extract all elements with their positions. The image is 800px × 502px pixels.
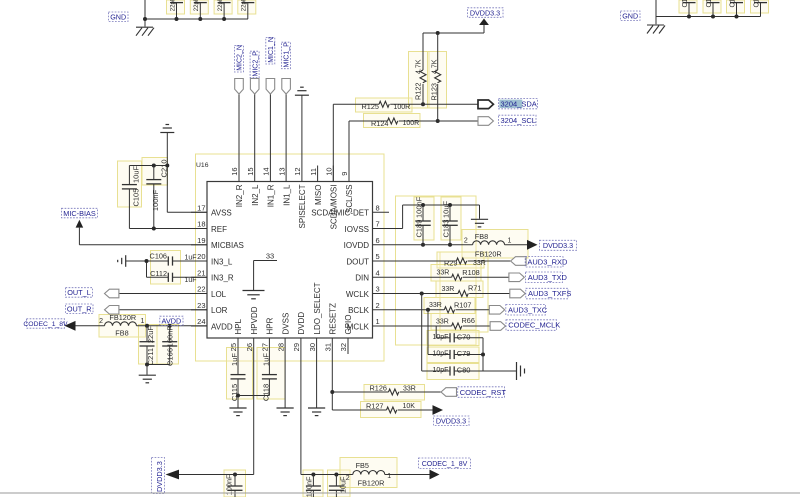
svg-text:CODEC_RST: CODEC_RST — [460, 388, 507, 397]
svg-text:MIC-BIAS: MIC-BIAS — [63, 209, 96, 218]
svg-text:2: 2 — [346, 475, 350, 482]
svg-text:SCDA/MIC-DET: SCDA/MIC-DET — [311, 209, 369, 218]
svg-text:C80: C80 — [457, 366, 471, 375]
svg-text:22: 22 — [197, 285, 205, 294]
svg-text:SCL/SS: SCL/SS — [345, 185, 354, 213]
svg-text:4: 4 — [376, 269, 380, 278]
svg-text:22pF: 22pF — [218, 0, 224, 11]
svg-text:18: 18 — [197, 220, 205, 229]
svg-text:33R: 33R — [403, 386, 416, 393]
svg-text:HPL: HPL — [234, 318, 243, 334]
svg-text:DVDD: DVDD — [297, 312, 306, 335]
svg-text:C188: C188 — [753, 0, 760, 8]
svg-text:C187: C187 — [729, 0, 736, 8]
svg-text:AUD3_TXFS: AUD3_TXFS — [528, 289, 571, 298]
svg-text:5: 5 — [376, 252, 380, 261]
svg-text:GPIO: GPIO — [344, 314, 353, 334]
svg-text:2: 2 — [99, 318, 103, 325]
svg-text:22pF: 22pF — [170, 0, 176, 11]
svg-text:DVDD3.3: DVDD3.3 — [470, 8, 500, 17]
svg-text:C70: C70 — [457, 332, 471, 341]
svg-text:17: 17 — [197, 204, 205, 213]
svg-text:15: 15 — [246, 167, 255, 175]
svg-text:100nF: 100nF — [224, 474, 233, 495]
svg-text:C106: C106 — [150, 252, 167, 261]
svg-text:OUT_L: OUT_L — [67, 288, 91, 297]
svg-text:1uF: 1uF — [185, 254, 197, 261]
svg-text:33R: 33R — [473, 260, 486, 267]
svg-text:100nF: 100nF — [415, 196, 424, 218]
svg-text:FB120R: FB120R — [475, 250, 502, 259]
svg-text:C166: C166 — [166, 348, 175, 366]
svg-text:MIC2_N: MIC2_N — [237, 45, 244, 71]
svg-text:DIN: DIN — [355, 274, 369, 283]
svg-text:13: 13 — [277, 167, 286, 175]
svg-text:4.7K: 4.7K — [415, 59, 422, 74]
svg-text:C189: C189 — [415, 220, 424, 238]
svg-text:10uF: 10uF — [442, 200, 451, 218]
svg-text:22pF: 22pF — [242, 0, 248, 11]
svg-text:100nF: 100nF — [151, 189, 160, 211]
svg-text:IOVSS: IOVSS — [345, 225, 369, 234]
svg-text:FB8: FB8 — [115, 329, 128, 338]
svg-text:C185: C185 — [682, 0, 689, 8]
svg-text:IOVDD: IOVDD — [344, 241, 370, 250]
svg-text:10K: 10K — [403, 403, 416, 410]
svg-text:R71: R71 — [468, 284, 481, 293]
svg-text:10pF: 10pF — [433, 367, 449, 374]
svg-text:22pF: 22pF — [194, 0, 200, 11]
svg-text:1: 1 — [508, 237, 512, 244]
svg-text:27: 27 — [261, 343, 270, 351]
svg-text:100R: 100R — [394, 104, 411, 111]
svg-text:R122: R122 — [413, 83, 422, 100]
svg-text:33: 33 — [266, 251, 274, 260]
svg-text:1: 1 — [141, 318, 145, 325]
svg-text:GND: GND — [622, 12, 638, 21]
svg-text:16: 16 — [230, 167, 239, 175]
svg-text:9: 9 — [340, 172, 349, 176]
svg-text:10pF: 10pF — [433, 334, 449, 341]
svg-text:AVSS: AVSS — [211, 209, 232, 218]
svg-text:C186: C186 — [706, 0, 713, 8]
svg-text:FB120R: FB120R — [358, 479, 385, 488]
svg-text:10uF: 10uF — [131, 165, 140, 183]
svg-text:8: 8 — [376, 204, 380, 213]
svg-text:SPISELECT: SPISELECT — [298, 184, 307, 228]
svg-text:C118: C118 — [262, 384, 271, 401]
svg-text:R66: R66 — [462, 316, 475, 325]
svg-text:4.7K: 4.7K — [432, 59, 439, 74]
svg-text:R108: R108 — [462, 268, 479, 277]
svg-text:IN3_L: IN3_L — [211, 257, 233, 266]
svg-text:IN2_L: IN2_L — [251, 184, 260, 206]
svg-text:R123: R123 — [430, 83, 439, 100]
svg-text:LOR: LOR — [211, 306, 228, 315]
svg-text:GND: GND — [110, 13, 126, 22]
svg-text:MIC2_P: MIC2_P — [252, 51, 259, 77]
svg-text:C112: C112 — [150, 269, 167, 278]
svg-text:100nF: 100nF — [305, 476, 314, 497]
svg-text:REF: REF — [211, 225, 227, 234]
svg-text:2: 2 — [376, 301, 380, 310]
svg-text:2: 2 — [464, 237, 468, 244]
svg-text:R127: R127 — [366, 402, 383, 411]
svg-text:FB120R: FB120R — [109, 313, 136, 322]
svg-text:DVDD3.3: DVDD3.3 — [543, 241, 573, 250]
svg-text:DOUT: DOUT — [346, 257, 369, 266]
svg-text:MISO: MISO — [314, 185, 323, 205]
svg-text:HPVDD: HPVDD — [250, 306, 259, 334]
svg-text:WCLK: WCLK — [346, 290, 370, 299]
svg-text:7: 7 — [376, 220, 380, 229]
svg-text:10: 10 — [325, 167, 334, 175]
svg-text:C183: C183 — [442, 220, 451, 238]
svg-text:AUD3_RXD: AUD3_RXD — [527, 257, 568, 266]
svg-text:R29: R29 — [444, 259, 457, 268]
svg-text:24: 24 — [197, 317, 205, 326]
svg-text:IN3_R: IN3_R — [211, 274, 234, 283]
svg-text:19: 19 — [197, 236, 205, 245]
svg-text:1uF: 1uF — [262, 353, 271, 366]
svg-text:C105: C105 — [131, 189, 140, 207]
svg-text:1uF: 1uF — [185, 277, 197, 284]
svg-text:CODEC_1_8V: CODEC_1_8V — [23, 321, 68, 328]
svg-text:R125: R125 — [362, 102, 379, 111]
svg-text:21: 21 — [197, 269, 205, 278]
svg-text:RESETZ: RESETZ — [329, 303, 338, 335]
svg-text:AUD3_TXC: AUD3_TXC — [508, 305, 548, 314]
svg-text:SCDA/MOSI: SCDA/MOSI — [330, 185, 339, 230]
svg-text:22uF: 22uF — [146, 326, 155, 344]
svg-text:28: 28 — [276, 343, 285, 351]
svg-text:DVSS: DVSS — [281, 313, 290, 335]
svg-text:30: 30 — [308, 343, 317, 351]
svg-text:IN1_R: IN1_R — [267, 184, 276, 207]
svg-text:AVDD: AVDD — [211, 322, 233, 331]
svg-text:FB5: FB5 — [356, 461, 369, 470]
svg-text:LOL: LOL — [211, 290, 227, 299]
svg-text:3: 3 — [376, 285, 380, 294]
svg-text:25: 25 — [229, 343, 238, 351]
svg-text:100nF: 100nF — [166, 326, 175, 348]
svg-text:12: 12 — [293, 167, 302, 175]
svg-text:33R: 33R — [442, 286, 455, 293]
svg-text:FB8: FB8 — [475, 232, 488, 241]
svg-text:MIC1_P: MIC1_P — [284, 42, 291, 68]
svg-text:MICBIAS: MICBIAS — [211, 241, 244, 250]
svg-text:3204_SDA: 3204_SDA — [501, 100, 537, 109]
svg-text:IN2_R: IN2_R — [235, 184, 244, 207]
svg-text:OUT_R: OUT_R — [67, 305, 92, 314]
svg-text:11: 11 — [309, 168, 318, 176]
svg-text:R124: R124 — [371, 119, 388, 128]
svg-text:C115: C115 — [230, 384, 239, 401]
svg-text:R126: R126 — [370, 384, 387, 393]
svg-text:DVDD3.3: DVDD3.3 — [436, 416, 466, 425]
svg-text:CODEC_1_8V: CODEC_1_8V — [422, 461, 468, 468]
svg-text:3204_SCL: 3204_SCL — [501, 116, 536, 125]
svg-text:6: 6 — [376, 236, 380, 245]
svg-text:1: 1 — [387, 473, 391, 480]
svg-text:HPR: HPR — [266, 317, 275, 334]
svg-text:33R: 33R — [436, 318, 449, 325]
svg-text:31: 31 — [324, 343, 333, 351]
svg-text:R107: R107 — [454, 300, 471, 309]
svg-text:1: 1 — [376, 317, 380, 326]
svg-text:20: 20 — [197, 252, 205, 261]
svg-text:1uF: 1uF — [230, 353, 239, 366]
svg-text:C210: C210 — [160, 160, 169, 178]
svg-text:100R: 100R — [403, 120, 420, 127]
svg-text:29: 29 — [292, 343, 301, 351]
svg-text:33R: 33R — [429, 302, 442, 309]
svg-text:C79: C79 — [457, 349, 471, 358]
svg-text:DVDD3.3: DVDD3.3 — [155, 461, 164, 492]
svg-text:LDO_SELECT: LDO_SELECT — [313, 282, 322, 334]
svg-text:BCLK: BCLK — [348, 306, 370, 315]
svg-text:CODEC_MCLK: CODEC_MCLK — [508, 321, 560, 330]
svg-text:C211: C211 — [146, 348, 155, 365]
svg-text:AVDD: AVDD — [162, 317, 182, 326]
svg-text:U16: U16 — [196, 162, 209, 169]
svg-text:IN1_L: IN1_L — [282, 184, 291, 206]
svg-text:AUD3_TXD: AUD3_TXD — [528, 273, 568, 282]
svg-text:23: 23 — [197, 301, 205, 310]
svg-text:26: 26 — [245, 343, 254, 351]
svg-text:14: 14 — [262, 167, 271, 175]
svg-text:MIC1_N: MIC1_N — [268, 37, 275, 63]
svg-text:33R: 33R — [437, 270, 450, 277]
svg-text:32: 32 — [339, 343, 348, 351]
svg-text:10pF: 10pF — [433, 351, 449, 358]
